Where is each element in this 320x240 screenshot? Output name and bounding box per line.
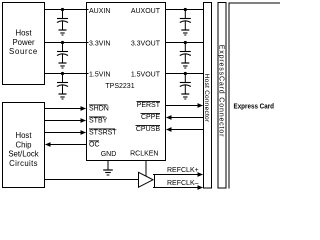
svg-text:Power: Power <box>12 38 35 47</box>
svg-text:SHDN: SHDN <box>89 105 109 112</box>
svg-text:3.3VOUT: 3.3VOUT <box>131 40 161 47</box>
svg-text:3.3VIN: 3.3VIN <box>89 40 110 47</box>
svg-text:PERST: PERST <box>137 102 161 109</box>
svg-text:Chip: Chip <box>15 141 32 150</box>
svg-text:1.5VIN: 1.5VIN <box>89 71 110 78</box>
svg-text:Host Connector: Host Connector <box>203 74 210 123</box>
svg-text:OC: OC <box>89 141 100 148</box>
svg-text:Source: Source <box>9 47 38 56</box>
svg-text:Host: Host <box>15 131 32 140</box>
svg-text:Express Card: Express Card <box>234 104 275 111</box>
svg-text:Set/Lock: Set/Lock <box>8 150 38 159</box>
svg-text:CPPE: CPPE <box>141 114 160 121</box>
svg-text:REFCLK–: REFCLK– <box>167 180 199 187</box>
svg-text:ExpressCard Connector: ExpressCard Connector <box>218 45 225 138</box>
svg-text:Host: Host <box>15 29 32 38</box>
svg-text:CPUSB: CPUSB <box>136 126 160 133</box>
svg-text:STSRST: STSRST <box>89 129 117 136</box>
svg-text:1.5VOUT: 1.5VOUT <box>131 71 161 78</box>
svg-text:STBY: STBY <box>89 117 108 124</box>
svg-text:AUXIN: AUXIN <box>89 8 110 15</box>
svg-text:Circuits: Circuits <box>9 159 38 168</box>
svg-text:REFCLK+: REFCLK+ <box>167 167 199 174</box>
svg-text:AUXOUT: AUXOUT <box>131 8 161 15</box>
svg-text:RCLKEN: RCLKEN <box>130 151 158 158</box>
svg-text:TPS2231: TPS2231 <box>105 83 134 90</box>
svg-text:GND: GND <box>101 151 117 158</box>
